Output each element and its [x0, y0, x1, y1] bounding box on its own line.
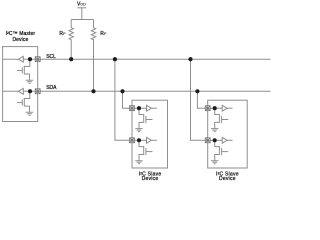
- svg-text:RP: RP: [100, 31, 107, 37]
- wire master SDA channel: [3, 90, 38, 92]
- node SCL dot at left resistor: [69, 57, 73, 61]
- svg-text:SDA: SDA: [46, 85, 57, 91]
- ground slave1 top: [135, 129, 142, 132]
- node SDA dot at right resistor: [91, 89, 95, 93]
- wire slave2 top buffer stub: [227, 107, 233, 109]
- pin slave2 SDA pad: [205, 106, 210, 111]
- node slave1 bottom junction dot: [137, 138, 141, 142]
- I2C slave device box U3: [208, 100, 248, 168]
- wire slave1 top channel: [132, 107, 147, 109]
- wire right resistor top lead: [93, 20, 95, 28]
- pin master SDA pad: [35, 89, 40, 94]
- wire slave1 bottom buffer stub: [151, 139, 157, 141]
- wire SDA drop to slave2 SDA pin: [197, 91, 207, 108]
- ground slave1 bottom: [135, 161, 142, 164]
- buffer master SCL input: [18, 56, 23, 62]
- transistor slave2 bottom pulldown: [215, 140, 220, 160]
- wire slave1 top buffer stub: [151, 107, 157, 109]
- I2C master device box U1: [3, 47, 38, 122]
- transistor slave1 top pulldown: [139, 108, 144, 128]
- resistor RP right: [91, 28, 95, 40]
- node master SCL junction dot: [28, 57, 32, 61]
- transistor master SDA pulldown: [24, 91, 30, 112]
- I2C slave device box U2: [132, 100, 168, 168]
- wire SCL bus line: [38, 58, 271, 60]
- wire right resistor bottom lead to SDA: [93, 39, 95, 91]
- svg-text:VDD: VDD: [77, 2, 86, 8]
- node slave2 bottom junction dot: [213, 138, 217, 142]
- ground master SDA: [26, 112, 33, 115]
- wire SDA drop to slave1 SDA pin: [123, 91, 133, 108]
- wire left resistor top lead: [70, 20, 72, 28]
- node SCL dot slave1: [113, 57, 117, 61]
- node SCL dot slave2: [188, 57, 192, 61]
- node slave1 top junction dot: [137, 106, 141, 110]
- wire left resistor bottom lead to SCL: [70, 39, 72, 59]
- transistor slave1 bottom pulldown: [139, 140, 144, 160]
- buffer master SDA input: [18, 88, 23, 94]
- wire SDA bus line: [38, 90, 271, 92]
- svg-text:Device: Device: [142, 176, 159, 182]
- wire slave2 bottom channel: [208, 139, 223, 141]
- svg-text:Device: Device: [219, 176, 236, 182]
- buffer slave1 bottom input: [147, 137, 152, 143]
- VDD supply bar: [77, 7, 86, 9]
- pin slave2 SCL pad: [205, 138, 210, 143]
- wire SCL drop to slave1 SCL pin: [115, 59, 132, 140]
- transistor slave2 top pulldown: [215, 108, 220, 128]
- wire slave2 top channel: [208, 107, 223, 109]
- buffer slave1 top input: [147, 105, 152, 111]
- buffer slave2 bottom input: [222, 137, 227, 143]
- wire VDD stub down: [81, 8, 83, 20]
- resistor RP left: [69, 28, 73, 40]
- node master SDA junction dot: [28, 89, 32, 93]
- ground slave2 bottom: [211, 161, 218, 164]
- node slave2 top junction dot: [213, 106, 217, 110]
- wire SCL drop to slave2 SCL pin: [191, 59, 208, 140]
- pin slave1 SCL pad: [130, 138, 135, 143]
- pin master SCL pad: [35, 57, 40, 62]
- node SDA dot slave2: [195, 89, 199, 93]
- wire master SCL channel: [3, 58, 38, 60]
- svg-text:SCL: SCL: [46, 54, 56, 60]
- ground slave2 top: [211, 129, 218, 132]
- wire slave2 bottom buffer stub: [227, 139, 233, 141]
- wire slave1 bottom channel: [132, 139, 147, 141]
- wire T split to both resistors: [71, 19, 93, 21]
- transistor master SCL pulldown: [24, 59, 30, 80]
- node SDA dot slave1: [120, 89, 124, 93]
- ground master SCL: [26, 80, 33, 83]
- svg-text:RP: RP: [59, 31, 66, 37]
- svg-text:Device: Device: [12, 37, 28, 43]
- pin slave1 SDA pad: [130, 106, 135, 111]
- buffer slave2 top input: [222, 105, 227, 111]
